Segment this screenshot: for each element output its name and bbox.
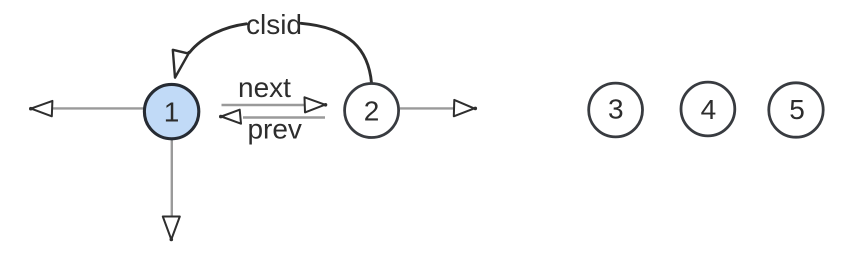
node 4 (681, 82, 735, 136)
next arrowhead (305, 97, 328, 112)
svg-text:3: 3 (608, 94, 624, 125)
left hollow arrowhead (29, 101, 52, 116)
clsid arrowhead into node 1 (173, 50, 189, 78)
junction nub where clsid curve meets arrowhead (187, 51, 190, 54)
svg-text:1: 1 (164, 96, 180, 127)
svg-text:next: next (238, 72, 291, 103)
svg-text:clsid: clsid (246, 9, 302, 40)
svg-text:prev: prev (247, 114, 301, 145)
node 5 (769, 83, 823, 137)
svg-text:4: 4 (701, 94, 717, 125)
wire right edge from node 2 (400, 107, 454, 109)
svg-text:5: 5 (789, 94, 805, 125)
right hollow arrowhead (454, 100, 477, 116)
node 2 (345, 84, 399, 138)
wire prev (2 to 1) (243, 116, 325, 119)
wire clsid curve right half (from node 2 top) (301, 23, 372, 83)
svg-text:2: 2 (364, 96, 380, 127)
prev arrowhead (219, 110, 241, 124)
wire down edge from node 1 (171, 140, 173, 216)
wire clsid curve left half (to arrowhead) (189, 24, 246, 53)
down hollow arrowhead (163, 217, 180, 242)
wire left edge from node 1 (53, 107, 144, 109)
wire next (1 to 2) (222, 104, 307, 107)
node 1 (144, 84, 198, 138)
node 3 (589, 83, 643, 137)
